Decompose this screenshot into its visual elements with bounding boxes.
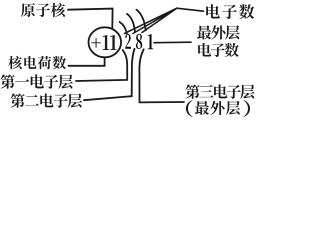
shell 2 arc (upper)	[127, 14, 135, 32]
label 核电荷数 (nuclear charge)	[8, 56, 66, 69]
wire from 核电荷数 label to nucleus bottom	[69, 58, 105, 66]
nucleus circle	[89, 27, 122, 57]
electron count digit 2 (shell 1)	[125, 34, 131, 49]
shell 2 lower arc + wire to second-shell label	[84, 49, 135, 100]
label 电子数 (line 2)	[198, 43, 239, 57]
electron count digit 8 (shell 2)	[136, 34, 142, 49]
shell 1 arc (upper)	[120, 22, 127, 34]
wire from 电子数 label with fan to digits	[125, 8, 204, 33]
shell 3 arc (upper)	[137, 10, 146, 31]
label 最外层 (line 1)	[197, 25, 240, 39]
label 第三电子层 (third shell)	[185, 84, 254, 98]
shell 3 lower arc + wire to third-shell label	[139, 49, 184, 102]
shell 1 lower arc + wire to first-shell label	[76, 50, 127, 81]
label 第一电子层 (first shell)	[0, 74, 72, 88]
label (最外层) (outermost shell note)	[186, 100, 250, 117]
label 原子核 (nucleus)	[21, 3, 65, 17]
nucleus charge text +11	[91, 35, 116, 50]
wire from 原子核 label to nucleus	[68, 9, 113, 29]
wire from 最外层电子数 label to digit 1	[154, 41, 191, 44]
label 第二电子层 (second shell)	[10, 93, 82, 107]
electron count digit 1 (shell 3)	[148, 34, 154, 49]
label 电子数 (electron counts)	[206, 4, 254, 19]
